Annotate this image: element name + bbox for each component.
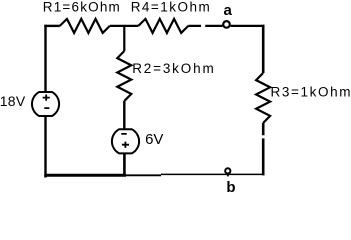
svg-text:R1=6kOhm: R1=6kOhm [43,0,120,14]
svg-text:R4=1kOhm: R4=1kOhm [131,0,210,14]
svg-text:R2=3kOhm: R2=3kOhm [132,61,214,76]
svg-text:R3=1kOhm: R3=1kOhm [271,84,351,99]
svg-text:a: a [224,2,233,19]
svg-text:6V: 6V [145,131,163,148]
svg-text:18V: 18V [0,93,26,109]
svg-text:b: b [226,179,235,192]
